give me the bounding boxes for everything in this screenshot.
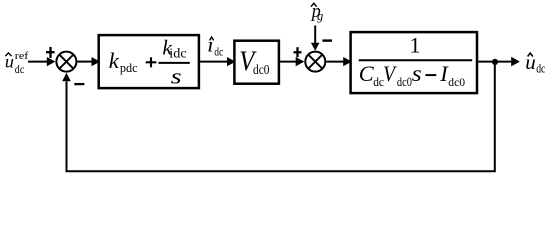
- wire: S2 to plant block G3: [326, 57, 352, 66]
- plus sign at summing junction S1: [46, 47, 55, 58]
- node: reference input label u_dc^ref: [5, 51, 29, 76]
- svg-text:k: k: [109, 48, 120, 73]
- svg-text:dc0: dc0: [253, 62, 270, 77]
- svg-text:V: V: [383, 63, 397, 86]
- svg-text:ı: ı: [207, 33, 213, 56]
- svg-text:idc: idc: [169, 47, 186, 62]
- node: output takeoff junction dot: [492, 59, 498, 65]
- wire: S1 to PI controller block G1: [77, 57, 100, 66]
- svg-text:g: g: [317, 9, 323, 23]
- summing junction S2 (circle with X): [305, 52, 325, 72]
- plus sign at summing junction S2: [294, 47, 302, 57]
- block G1: PI controller k_pdc + k_idc/s: [99, 35, 199, 88]
- wire: G1 to V_dc0 block G2: [200, 57, 236, 66]
- wire: feedback path from output node to S1: [62, 62, 495, 172]
- wire: G2 to summing junction S2: [280, 57, 304, 66]
- minus sign at summing junction S2: [322, 39, 332, 41]
- svg-text:dc: dc: [214, 44, 223, 58]
- svg-text:dc: dc: [536, 62, 546, 76]
- wire: G3 output arrow: [478, 57, 520, 67]
- svg-text:ref: ref: [15, 51, 29, 62]
- minus sign at summing junction S1: [74, 83, 84, 85]
- block G2: gain V_dc0: [234, 41, 279, 84]
- svg-text:dc: dc: [15, 62, 24, 76]
- svg-text:1: 1: [410, 33, 421, 58]
- node: output label u_dc with hat: [525, 50, 545, 76]
- summing junction S1 (circle with X): [56, 52, 76, 72]
- svg-text:s: s: [171, 64, 182, 89]
- svg-text:dc0: dc0: [448, 75, 465, 89]
- node label: i_dc with hat: [207, 33, 223, 58]
- node: disturbance input label p_g with hat: [310, 1, 323, 23]
- wire: disturbance arrow down into S2: [311, 26, 320, 51]
- svg-text:pdc: pdc: [120, 61, 138, 75]
- svg-text:s: s: [412, 61, 422, 87]
- svg-text:dc0: dc0: [397, 75, 412, 89]
- wire: input arrow into summing junction S1: [28, 57, 55, 66]
- block G3: plant 1/(C_dc V_dc0 s - I_dc0): [351, 32, 477, 93]
